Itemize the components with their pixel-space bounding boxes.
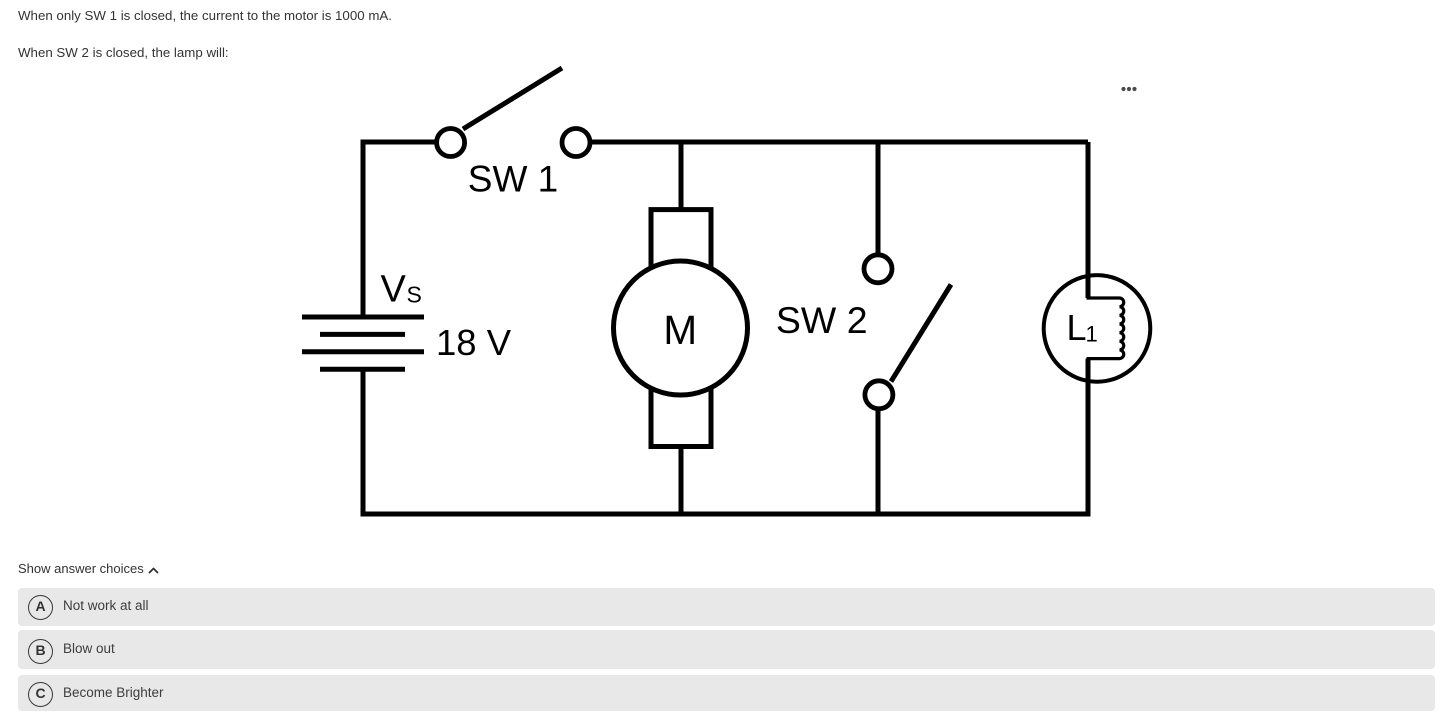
svg-text:M: M	[663, 307, 697, 353]
svg-text:L: L	[1067, 307, 1087, 348]
svg-text:S: S	[407, 282, 422, 308]
svg-text:18 V: 18 V	[436, 322, 512, 363]
svg-text:SW 2: SW 2	[776, 299, 868, 341]
svg-text:V: V	[381, 269, 407, 311]
svg-text:1: 1	[1086, 322, 1098, 347]
svg-text:SW 1: SW 1	[468, 158, 558, 199]
